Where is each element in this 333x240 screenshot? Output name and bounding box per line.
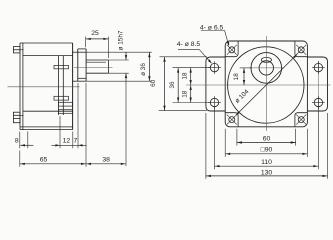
gearbox front plate — [77, 49, 79, 81]
dim ø15h7 line — [125, 53, 127, 167]
tab hole bottom-right ø8.5 — [312, 96, 325, 109]
dim 110 line — [215, 165, 319, 167]
right tab holes centerline — [317, 61, 319, 110]
svg-text:60: 60 — [263, 135, 271, 142]
svg-text:8: 8 — [15, 138, 19, 145]
dim 38 line — [86, 163, 126, 165]
svg-text:□90: □90 — [261, 147, 273, 154]
shaft keyway line — [86, 61, 106, 63]
dim 65-38 joint extension — [85, 83, 87, 167]
dim 36 line — [177, 68, 179, 103]
gear case joint line 1 — [57, 56, 59, 115]
dim ø36 line — [148, 52, 150, 81]
svg-text:25: 25 — [91, 30, 99, 37]
shaft top line — [86, 59, 108, 61]
svg-text:ø 104: ø 104 — [234, 88, 251, 105]
dim 60 extension lines — [237, 129, 296, 146]
dim 8 extension lines — [20, 132, 28, 149]
svg-text:60: 60 — [150, 79, 157, 87]
dim 18 offset extension — [240, 67, 252, 69]
svg-text:18: 18 — [182, 90, 189, 98]
dim 18-18 line — [190, 68, 192, 103]
output boss circle — [251, 53, 282, 84]
vertical centerline — [265, 36, 267, 131]
dim 8 line — [20, 144, 33, 146]
body base line — [20, 126, 73, 128]
tab hole top-left ø8.5 — [208, 61, 221, 74]
corner pad top-right — [295, 41, 308, 57]
dim 60 vertical extension lines — [159, 57, 207, 111]
gear case joint line 2 — [62, 56, 64, 115]
body upper silhouette line — [23, 55, 73, 57]
rear bolt head top — [13, 47, 23, 53]
corner pad bottom-right — [295, 113, 308, 127]
tab hole top-right ø8.5 — [312, 61, 325, 74]
dim □90 extension lines — [225, 129, 307, 157]
dim 130 line — [206, 175, 328, 177]
svg-text:ø 36: ø 36 — [140, 63, 147, 76]
dim 130 extension lines — [206, 113, 328, 179]
dim ø36 extension lines — [86, 52, 152, 81]
dim 18 offset line — [243, 68, 245, 85]
leader 4-ø6.5 — [201, 31, 229, 47]
boss step bottom — [78, 77, 86, 79]
output shaft circle — [259, 61, 273, 75]
dim 25 line — [86, 38, 109, 40]
dim 25 extension lines — [86, 37, 109, 59]
right mounting tab — [307, 57, 327, 111]
dim ø104 diagonal line — [236, 54, 297, 115]
svg-text:18: 18 — [233, 73, 240, 81]
svg-text:65: 65 — [40, 156, 48, 163]
rear bolt head bottom — [13, 112, 23, 123]
svg-text:110: 110 — [261, 159, 272, 166]
flange square outline — [225, 41, 307, 127]
dim 60 line — [237, 141, 296, 143]
corner screw top-right ø6.5 — [296, 45, 306, 55]
shaft bottom line — [86, 72, 108, 74]
gear wheel 3 — [58, 102, 72, 106]
dim 36 extension lines — [173, 68, 210, 103]
boss step top — [78, 48, 86, 50]
svg-text:18: 18 — [182, 72, 189, 80]
corner screw bottom-left ø6.5 — [227, 115, 237, 125]
shaft horizontal centerline — [249, 67, 284, 69]
corner screw bottom-right ø6.5 — [296, 115, 306, 125]
body lower silhouette line — [23, 110, 73, 112]
keyway slot — [261, 57, 271, 62]
left mounting tab — [206, 57, 225, 111]
gear wheel 4 — [58, 110, 72, 114]
dim 12 and 7 extension lines — [60, 83, 78, 148]
dim 110 extension lines — [215, 108, 319, 170]
output boss top — [73, 51, 86, 53]
dim 12-7 line — [52, 144, 87, 146]
svg-text:12: 12 — [63, 138, 71, 145]
motor body outline (side view) — [20, 43, 73, 130]
leader 4-ø8.5 — [178, 49, 212, 63]
dim 65 extension line left — [19, 151, 21, 167]
dim 65 line — [20, 163, 86, 165]
svg-text:4- ø 8.5: 4- ø 8.5 — [177, 41, 201, 48]
tab hole bottom-left ø8.5 — [208, 96, 221, 109]
output boss face — [85, 49, 87, 81]
motor centerline — [8, 86, 80, 88]
dim □90 line — [225, 153, 307, 155]
corner pad bottom-left — [225, 113, 238, 127]
svg-text:36: 36 — [169, 81, 176, 89]
motor body circle — [228, 47, 304, 123]
motor rear cover joint line — [22, 43, 24, 130]
svg-text:ø 15h7: ø 15h7 — [117, 30, 124, 50]
gear wheel 1 — [54, 65, 69, 68]
gear wheel 2 — [54, 96, 69, 100]
svg-text:7: 7 — [74, 138, 78, 145]
horizontal centerline — [186, 84, 331, 86]
shaft end face — [107, 60, 109, 73]
svg-text:130: 130 — [261, 169, 273, 176]
corner screw top-left ø6.5 — [227, 45, 237, 55]
corner pad top-left — [225, 41, 238, 57]
dim ø15h7 extension lines — [108, 60, 128, 73]
svg-text:38: 38 — [102, 156, 110, 163]
shaft centerline — [74, 67, 113, 69]
dim 60 vertical line — [163, 57, 165, 111]
output boss bottom — [73, 80, 86, 82]
